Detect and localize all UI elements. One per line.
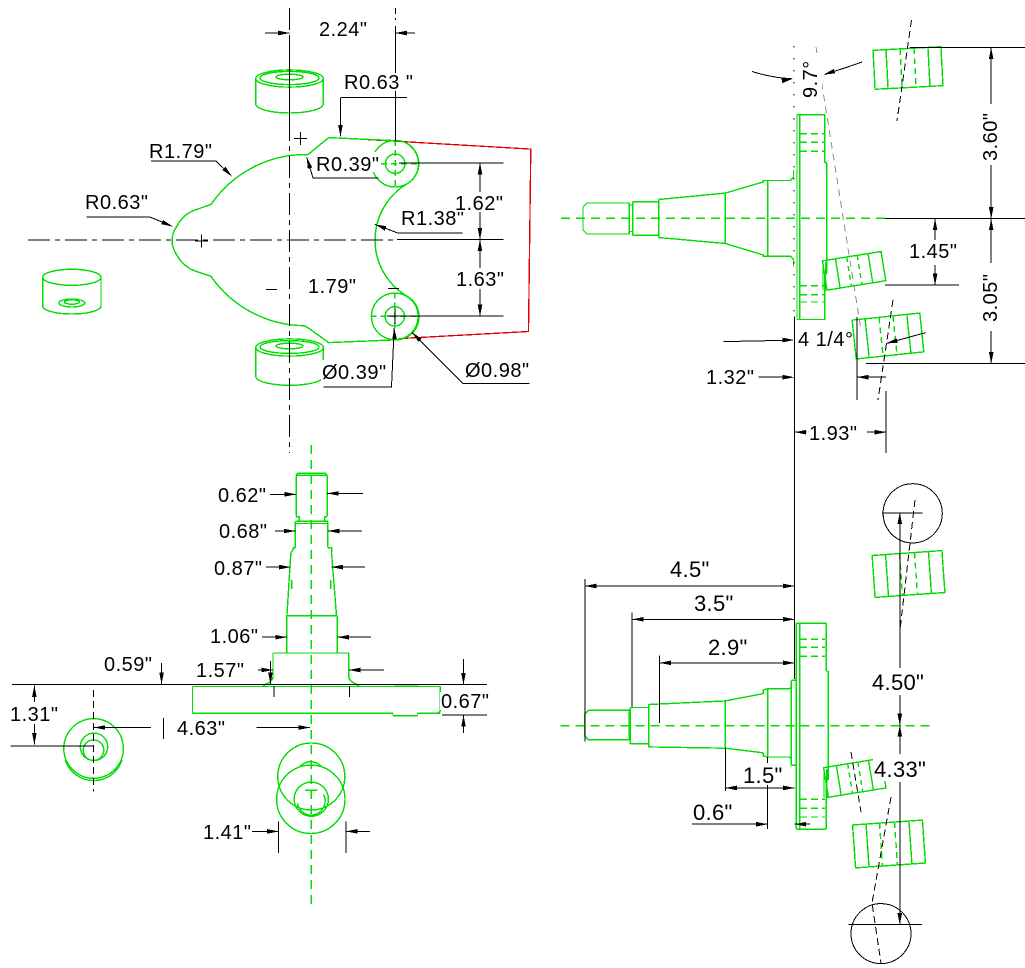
svg-text:3.60": 3.60" <box>980 112 1002 161</box>
svg-text:R1.79": R1.79" <box>149 141 212 163</box>
svg-text:4.63": 4.63" <box>177 718 226 740</box>
svg-text:R0.63": R0.63" <box>85 192 148 214</box>
svg-text:1.57": 1.57" <box>196 660 245 682</box>
svg-text:1.32": 1.32" <box>706 367 755 389</box>
svg-text:1.5": 1.5" <box>743 763 783 788</box>
svg-text:0.67": 0.67" <box>441 691 490 713</box>
svg-text:4 1/4°: 4 1/4° <box>798 329 853 351</box>
svg-text:Ø0.39": Ø0.39" <box>322 362 387 384</box>
svg-text:1.63": 1.63" <box>456 269 505 291</box>
svg-text:0.62": 0.62" <box>218 485 267 507</box>
svg-text:4.33": 4.33" <box>874 757 926 782</box>
svg-text:1.41": 1.41" <box>203 822 252 844</box>
svg-text:4.5": 4.5" <box>670 557 710 582</box>
svg-text:3.05": 3.05" <box>980 273 1002 322</box>
svg-text:9.7°: 9.7° <box>800 60 822 98</box>
svg-text:R0.39": R0.39" <box>316 154 379 176</box>
svg-text:0.68": 0.68" <box>219 521 268 543</box>
svg-text:0.59": 0.59" <box>104 654 153 676</box>
svg-text:0.6": 0.6" <box>693 800 733 825</box>
svg-text:1.45": 1.45" <box>909 241 958 263</box>
svg-text:3.5": 3.5" <box>694 591 734 616</box>
svg-text:1.31": 1.31" <box>10 704 59 726</box>
svg-text:1.62": 1.62" <box>455 193 504 215</box>
svg-text:2.24": 2.24" <box>319 19 368 41</box>
svg-text:1.06": 1.06" <box>210 626 259 648</box>
svg-text:Ø0.98": Ø0.98" <box>465 360 530 382</box>
svg-text:R0.63 ": R0.63 " <box>344 72 414 94</box>
svg-text:1.79": 1.79" <box>308 276 357 298</box>
svg-text:1.93": 1.93" <box>809 423 858 445</box>
svg-text:2.9": 2.9" <box>708 635 748 660</box>
svg-text:4.50": 4.50" <box>872 670 924 695</box>
svg-text:0.87": 0.87" <box>214 558 263 580</box>
